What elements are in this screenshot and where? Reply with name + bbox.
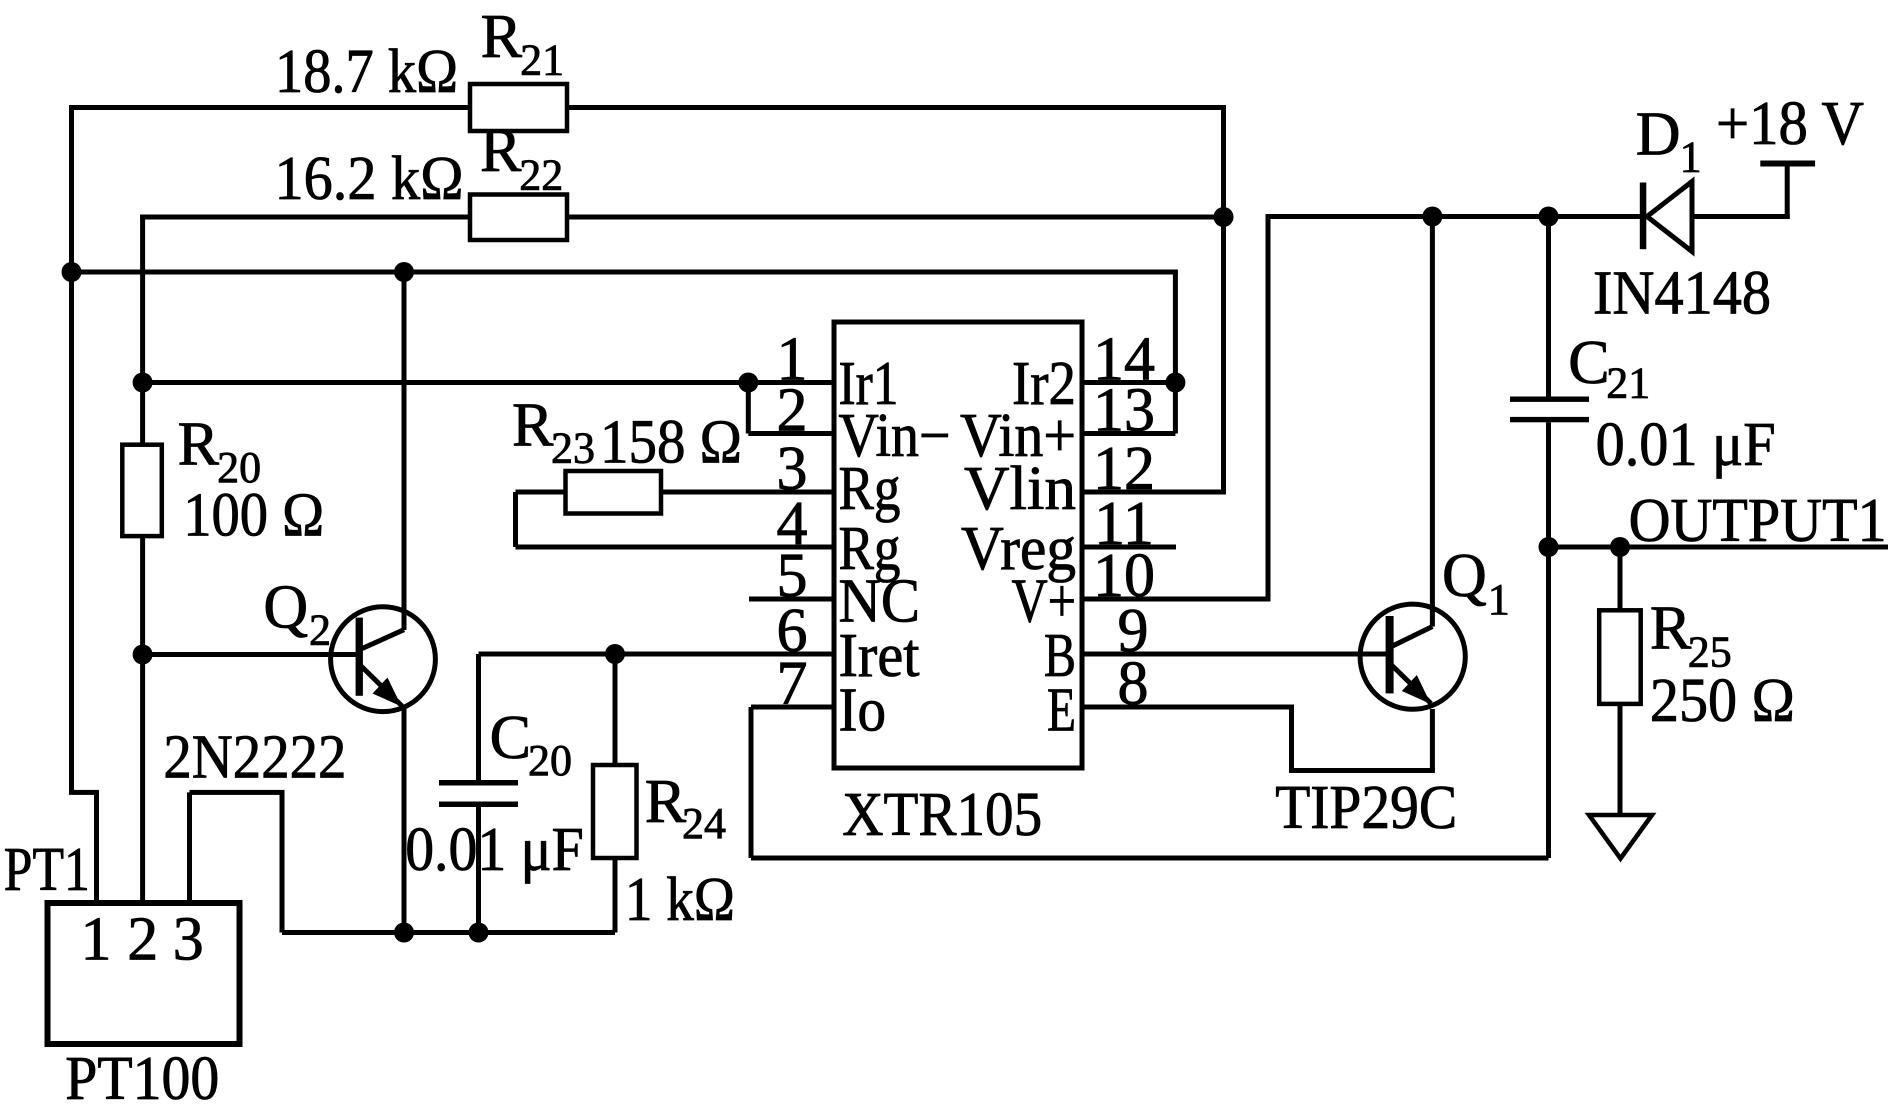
resistor R21 body xyxy=(470,84,567,131)
wire Q2 collector vertical xyxy=(402,272,407,630)
resistor R25 body xyxy=(1599,610,1641,704)
wire C20 top lead xyxy=(476,654,481,780)
resistor R24 body xyxy=(593,765,637,858)
resistor R20 body xyxy=(122,445,162,536)
wire PT1 pin1 step horizontal xyxy=(69,790,99,795)
wire supply line to D1 cathode xyxy=(1266,214,1642,219)
wire C20 bottom lead xyxy=(476,807,481,933)
wire R24 top lead xyxy=(613,654,618,765)
svg-text:0.01 μF: 0.01 μF xyxy=(405,816,584,884)
wire C21 bottom / output vertical xyxy=(1546,422,1551,858)
svg-text:E: E xyxy=(1047,677,1076,745)
svg-text:3: 3 xyxy=(173,905,204,973)
svg-text:R: R xyxy=(178,411,220,479)
svg-text:22: 22 xyxy=(519,151,563,200)
svg-text:2: 2 xyxy=(309,606,331,655)
node Q2 emitter common junction xyxy=(394,923,414,943)
wire pin1 Ir1 net xyxy=(143,380,834,385)
wire E to Q1 emitter xyxy=(1289,768,1435,773)
wire D1 anode to +18V corner xyxy=(1692,214,1790,219)
svg-text:2: 2 xyxy=(127,905,158,973)
wire vertical R21/R22 to pin12 xyxy=(1221,108,1226,493)
transistor Q2 2N2222 xyxy=(331,607,436,712)
svg-text:Q: Q xyxy=(263,574,308,642)
node Q2 collector junction xyxy=(394,262,414,282)
svg-text:R: R xyxy=(481,3,523,71)
wire vertical down to pin13 xyxy=(1173,272,1178,434)
svg-text:24: 24 xyxy=(682,799,726,848)
wire pin5 NC stub xyxy=(749,597,834,602)
wire pin4 Rg xyxy=(516,545,835,550)
wire R24 bottom lead xyxy=(613,858,618,933)
svg-text:20: 20 xyxy=(528,736,572,785)
wire PT1 pin3 vertical up xyxy=(187,792,192,903)
node R20/Q2 base junction xyxy=(133,645,153,665)
wire pin13 Vin+ stub xyxy=(1082,431,1175,436)
wire pin6 Iret xyxy=(479,652,835,657)
wire C21 top lead xyxy=(1546,217,1551,397)
wire R22 net left xyxy=(140,215,470,220)
wire pin14 Ir2 stub xyxy=(1082,380,1178,385)
svg-text:158 Ω: 158 Ω xyxy=(600,408,742,476)
svg-text:7: 7 xyxy=(777,650,808,718)
wire Q1 emitter vertical xyxy=(1430,709,1435,771)
svg-text:1: 1 xyxy=(81,905,112,973)
wire Q2 emitter vertical xyxy=(402,708,407,933)
wire V+ vertical to supply xyxy=(1266,214,1271,599)
wire Q2 base xyxy=(143,652,359,657)
svg-text:C: C xyxy=(490,704,531,772)
svg-text:1: 1 xyxy=(1680,133,1702,182)
transistor Q1 TIP29C xyxy=(1360,604,1465,709)
svg-text:0.01 μF: 0.01 μF xyxy=(1596,411,1776,479)
svg-text:21: 21 xyxy=(1606,359,1650,408)
wire pin7 Io xyxy=(751,705,834,710)
capacitor C20 xyxy=(439,780,518,786)
node C21 supply junction xyxy=(1539,207,1559,227)
wire Io vertical down xyxy=(749,707,754,858)
wire R25 bottom lead xyxy=(1618,704,1623,815)
svg-text:+18 V: +18 V xyxy=(1716,90,1864,158)
wire R20 bottom to PT1 pin2 xyxy=(140,536,145,903)
wire pin2 Vin- stub xyxy=(748,431,834,436)
node C20 common junction xyxy=(469,923,489,943)
wire pin9 B to Q1 base xyxy=(1082,652,1390,657)
sensor PT1 PT100 body xyxy=(48,903,240,1044)
node output R25 junction xyxy=(1610,537,1630,557)
wire bottom-left common xyxy=(282,930,615,935)
wire left vertical R21-to-PT1 xyxy=(69,105,74,792)
wire pin11 Vreg stub xyxy=(1082,545,1176,550)
wire pin2 to pin1 vertical xyxy=(746,380,751,434)
resistor R23 body xyxy=(566,471,662,514)
wire pin8 E xyxy=(1082,705,1294,710)
wire bottom long Io-to-output xyxy=(751,856,1549,861)
diode D1 IN4148 xyxy=(1640,183,1647,250)
resistor R22 body xyxy=(470,195,567,241)
svg-text:21: 21 xyxy=(520,36,564,85)
svg-text:D: D xyxy=(1636,101,1681,169)
wire OUTPUT1 xyxy=(1549,545,1888,550)
wire pin10 V+ xyxy=(1082,597,1271,602)
node Q1 collector supply junction xyxy=(1422,207,1442,227)
svg-text:TIP29C: TIP29C xyxy=(1275,774,1457,842)
node R22/R20/Ir1 junction xyxy=(133,373,153,393)
svg-text:R: R xyxy=(480,117,522,185)
node Ir1/Vin- junction xyxy=(738,373,758,393)
svg-text:250 Ω: 250 Ω xyxy=(1650,667,1795,735)
terminal +18V bar xyxy=(1760,161,1815,167)
svg-text:Vlin: Vlin xyxy=(964,455,1076,523)
svg-text:23: 23 xyxy=(551,423,595,472)
wire Q1 collector vertical xyxy=(1430,217,1435,627)
wire PT1 pin3 vertical down xyxy=(280,792,285,932)
svg-text:R: R xyxy=(645,768,687,836)
wire R22 right to junction xyxy=(567,215,1224,220)
svg-text:1 kΩ: 1 kΩ xyxy=(625,866,735,934)
node output C21 junction xyxy=(1539,537,1559,557)
wire PT1 pin3 step horizontal xyxy=(190,790,285,795)
node junction left vertical / Vin+ net xyxy=(62,262,82,282)
capacitor C21 xyxy=(1510,397,1589,402)
svg-text:PT100: PT100 xyxy=(65,1045,219,1113)
ground symbol xyxy=(1589,815,1652,859)
wire E vertical down xyxy=(1289,707,1294,771)
node Ir2/Vin+ junction xyxy=(1165,373,1185,393)
svg-text:R: R xyxy=(1650,594,1692,662)
wire R25 top lead xyxy=(1618,547,1623,610)
wire PT1 pin1 vertical xyxy=(94,792,99,903)
wire pin12 Vlin xyxy=(1082,490,1226,495)
wire R23 left horizontal xyxy=(516,490,566,495)
node Iret/R24 junction xyxy=(605,644,625,664)
svg-text:OUTPUT1: OUTPUT1 xyxy=(1629,487,1887,555)
wire long horizontal Vin+ net xyxy=(72,270,1178,275)
svg-text:18.7 kΩ: 18.7 kΩ xyxy=(275,38,458,106)
svg-text:XTR105: XTR105 xyxy=(842,781,1042,849)
svg-text:PT1: PT1 xyxy=(4,836,90,904)
IC U1 XTR105 body xyxy=(834,322,1082,768)
svg-text:C: C xyxy=(1568,329,1609,397)
wire R21 right to vertical xyxy=(567,105,1226,110)
wire pin3 Rg xyxy=(661,490,834,495)
svg-text:Io: Io xyxy=(839,677,887,745)
svg-text:Q: Q xyxy=(1442,542,1487,610)
svg-text:100 Ω: 100 Ω xyxy=(183,481,324,549)
svg-text:1: 1 xyxy=(1488,575,1510,624)
svg-text:R: R xyxy=(512,391,554,459)
wire +18V vertical xyxy=(1785,164,1790,220)
wire R22 vertical down to R20 xyxy=(140,215,145,445)
svg-text:2N2222: 2N2222 xyxy=(163,724,346,792)
svg-text:16.2 kΩ: 16.2 kΩ xyxy=(275,145,464,213)
svg-text:Rg: Rg xyxy=(839,455,901,523)
svg-text:8: 8 xyxy=(1118,650,1149,718)
wire R23 left vertical xyxy=(513,492,518,547)
wire R21 net top-left xyxy=(69,105,470,110)
svg-text:IN4148: IN4148 xyxy=(1593,260,1771,328)
node R21/R22 junction xyxy=(1214,207,1234,227)
